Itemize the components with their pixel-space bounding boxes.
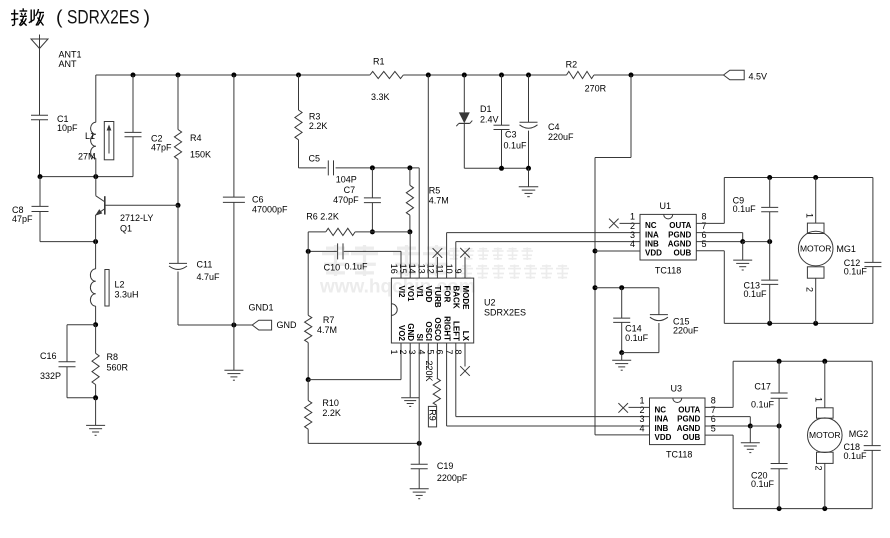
svg-text:U1: U1 xyxy=(660,201,672,211)
svg-text:14: 14 xyxy=(407,264,417,274)
svg-text:4.7uF: 4.7uF xyxy=(197,272,221,282)
zener diode D1 2.4V xyxy=(456,75,498,168)
resistor R5 4.7M xyxy=(406,168,449,235)
capacitor C18 0.1uF xyxy=(844,361,881,508)
antenna ANT1 xyxy=(31,35,82,116)
svg-text:ANT: ANT xyxy=(59,59,78,69)
U1 pin7 PGND wire xyxy=(696,233,742,242)
svg-text:0.1uF: 0.1uF xyxy=(733,204,757,214)
svg-text:C16: C16 xyxy=(40,351,57,361)
wire D1/C3/C4 bottom xyxy=(464,166,531,171)
svg-text:13: 13 xyxy=(416,264,426,274)
svg-text:220uF: 220uF xyxy=(673,325,699,335)
inductor L2 3.3uH xyxy=(90,242,138,328)
U1 pin names xyxy=(645,221,692,257)
capacitor C3 0.1uF xyxy=(494,75,528,168)
svg-text:R3: R3 xyxy=(309,111,321,121)
svg-text:16: 16 xyxy=(389,264,399,274)
svg-text:INB: INB xyxy=(645,239,659,248)
U3 pin7 PGND wire xyxy=(705,417,750,426)
svg-text:3.3uH: 3.3uH xyxy=(115,290,139,300)
svg-text:MG1: MG1 xyxy=(836,244,856,254)
svg-text:0.1uF: 0.1uF xyxy=(625,333,649,343)
svg-text:SDRX2ES: SDRX2ES xyxy=(67,7,140,29)
svg-text:560R: 560R xyxy=(107,363,129,373)
U2 pin13 VDD column xyxy=(427,75,429,278)
svg-text:2.2K: 2.2K xyxy=(322,408,341,418)
svg-text:AGND: AGND xyxy=(668,239,692,248)
svg-text:0.1uF: 0.1uF xyxy=(504,140,528,150)
resistor R9 220K xyxy=(424,361,440,427)
svg-text:VO1: VO1 xyxy=(406,286,415,303)
svg-text:1: 1 xyxy=(814,397,824,402)
U3 pin1 no-connect xyxy=(618,403,649,413)
svg-text:C10: C10 xyxy=(324,263,341,273)
capacitor C16 332P xyxy=(40,325,96,398)
svg-text:270R: 270R xyxy=(585,84,607,94)
capacitor C2 47pF xyxy=(125,75,173,177)
svg-text:C19: C19 xyxy=(437,461,454,471)
svg-text:10pF: 10pF xyxy=(57,123,78,133)
capacitor C15 220uF xyxy=(622,288,699,353)
svg-text:R4: R4 xyxy=(190,133,202,143)
svg-text:4: 4 xyxy=(630,239,635,249)
svg-text:2: 2 xyxy=(805,287,815,292)
svg-text:GND1: GND1 xyxy=(249,302,274,312)
svg-text:FOR: FOR xyxy=(442,286,451,303)
ground under C4 xyxy=(519,168,539,196)
svg-text:OSCI: OSCI xyxy=(424,321,433,341)
svg-text:10: 10 xyxy=(444,264,454,274)
svg-text:NC: NC xyxy=(655,405,667,414)
ground at U1 AGND xyxy=(733,242,752,270)
svg-text:220uF: 220uF xyxy=(548,132,574,142)
svg-text:C7: C7 xyxy=(344,185,356,195)
svg-text:C6: C6 xyxy=(252,195,264,205)
svg-text:R5: R5 xyxy=(429,186,441,196)
U1 pin8 wire to MG1 rail xyxy=(696,178,724,224)
wire VDD to U3 pin4 xyxy=(595,434,650,436)
svg-text:OUB: OUB xyxy=(674,249,692,258)
svg-text:VDD: VDD xyxy=(424,286,433,303)
svg-text:2.4V: 2.4V xyxy=(480,115,499,125)
capacitor C6 47000pF xyxy=(223,75,288,325)
svg-text:R2: R2 xyxy=(566,59,578,69)
capacitor C4 220uF xyxy=(520,75,575,168)
svg-text:2712-LY: 2712-LY xyxy=(120,213,153,223)
svg-text:OUTA: OUTA xyxy=(669,221,691,230)
svg-text:GND: GND xyxy=(406,323,415,341)
svg-text:470pF: 470pF xyxy=(333,195,359,205)
svg-text:0.1uF: 0.1uF xyxy=(751,479,775,489)
U3 pin8 wire to MG2 rail xyxy=(705,361,733,407)
U1 pin1 no-connect xyxy=(609,219,640,229)
U1 pin6 AGND wire xyxy=(696,239,772,244)
ground under C19 xyxy=(410,489,429,499)
resistor R1 3.3K xyxy=(370,57,403,102)
svg-text:4.7M: 4.7M xyxy=(317,325,337,335)
svg-text:4.5V: 4.5V xyxy=(749,71,768,81)
svg-text:OSCO: OSCO xyxy=(433,317,442,341)
svg-text:Q1: Q1 xyxy=(120,224,132,234)
svg-text:4: 4 xyxy=(639,423,644,433)
U2 pin16 stub xyxy=(400,251,402,278)
svg-text:TC118: TC118 xyxy=(666,450,692,460)
svg-text:2: 2 xyxy=(398,350,408,355)
ground under GND1 node xyxy=(224,325,243,380)
title text 接收（SDRX2ES） xyxy=(11,7,150,29)
svg-text:1: 1 xyxy=(389,350,399,355)
svg-text:0.1uF: 0.1uF xyxy=(345,261,369,271)
U2 pin2 GND stub xyxy=(409,343,411,397)
U2 pin7 LEFT wire to U3 INA xyxy=(456,343,650,417)
svg-text:OUTA: OUTA xyxy=(678,405,700,414)
svg-text:RIGHT: RIGHT xyxy=(442,316,451,341)
wire C1-L1-C2 bottom node y=176.6 xyxy=(38,174,134,179)
ground at U3 AGND xyxy=(741,426,760,453)
resistor R2 270R xyxy=(566,59,607,93)
svg-text:BACK: BACK xyxy=(452,286,461,309)
svg-text:TC118: TC118 xyxy=(655,265,681,275)
U2 pin6 RIGHT wire to U3 INB xyxy=(447,343,650,426)
U2 bottom pin numbers xyxy=(389,350,463,355)
capacitor C20 0.1uF xyxy=(751,426,788,509)
svg-text:9: 9 xyxy=(453,269,463,274)
IC U1 TC118 body xyxy=(640,201,696,275)
svg-text:VDD: VDD xyxy=(655,433,672,442)
svg-text:VO2: VO2 xyxy=(397,325,406,342)
U2 pin14 stub xyxy=(418,168,420,278)
wire R10 to C19 node xyxy=(308,441,422,446)
svg-text:NC: NC xyxy=(645,221,657,230)
svg-text:C5: C5 xyxy=(309,153,321,163)
svg-text:4.7M: 4.7M xyxy=(429,195,449,205)
resistor R8 560R xyxy=(92,325,129,401)
U2 pin11 FOR wire to U1 INA xyxy=(447,233,640,279)
U2 bottom pin names xyxy=(397,316,470,342)
svg-text:): ) xyxy=(144,7,151,29)
U2 pin3 SI wire to C19 xyxy=(418,343,420,443)
watermark xyxy=(319,245,569,298)
motor MG2 xyxy=(808,361,869,508)
svg-text:VDD: VDD xyxy=(645,249,662,258)
svg-text:GND: GND xyxy=(277,320,298,330)
svg-text:2: 2 xyxy=(814,466,824,471)
svg-text:LEFT: LEFT xyxy=(452,321,461,341)
svg-text:PGND: PGND xyxy=(677,415,700,424)
svg-text:TURB: TURB xyxy=(433,286,442,308)
wire MG2 bottom rail xyxy=(733,506,872,511)
svg-text:4: 4 xyxy=(416,350,426,355)
svg-text:220K: 220K xyxy=(424,361,434,382)
resistor R6 2.2K xyxy=(306,212,410,236)
svg-text:R8: R8 xyxy=(107,352,119,362)
svg-text:47pF: 47pF xyxy=(12,214,33,224)
svg-text:(: ( xyxy=(56,7,63,29)
U2 pin15 stub xyxy=(409,232,411,278)
U3 pin numbers right xyxy=(711,396,716,434)
svg-text:MG2: MG2 xyxy=(849,429,869,439)
connector GND1 xyxy=(249,302,298,330)
svg-text:SI: SI xyxy=(415,333,424,341)
svg-text:LX: LX xyxy=(461,331,470,342)
svg-text:1: 1 xyxy=(805,213,815,218)
svg-text:INB: INB xyxy=(655,424,669,433)
svg-text:104P: 104P xyxy=(336,175,357,185)
svg-text:27M: 27M xyxy=(78,152,96,162)
ground under C14 xyxy=(612,353,631,371)
svg-text:47000pF: 47000pF xyxy=(252,205,288,215)
wire VDD to U1 pin4 xyxy=(595,250,640,252)
wire R7 node to U2 pin1 xyxy=(308,343,401,380)
svg-text:AGND: AGND xyxy=(677,424,701,433)
svg-text:ANT1: ANT1 xyxy=(59,50,82,60)
U2 pin9 no-connect xyxy=(460,248,470,278)
svg-text:R7: R7 xyxy=(323,315,335,325)
U3 pin5 OUB wire to MG2 bottom rail xyxy=(705,435,733,509)
capacitor C5 104P xyxy=(299,153,420,184)
wire top supply bus y=75 xyxy=(96,74,724,76)
capacitor C7 470pF xyxy=(333,168,381,235)
capacitor C19 2200pF xyxy=(411,443,468,488)
wire C11 to GND1 node xyxy=(178,323,252,328)
svg-text:R10: R10 xyxy=(322,398,339,408)
resistor R10 2.2K xyxy=(305,380,341,444)
svg-text:7: 7 xyxy=(444,350,454,355)
svg-text:MOTOR: MOTOR xyxy=(800,244,831,254)
U2 top pin numbers xyxy=(389,264,463,274)
svg-text:150K: 150K xyxy=(190,150,211,160)
svg-text:15: 15 xyxy=(398,264,408,274)
svg-text:D1: D1 xyxy=(480,104,492,114)
svg-text:12: 12 xyxy=(425,264,435,274)
U3 pin names xyxy=(655,405,701,442)
svg-text:6: 6 xyxy=(435,350,445,355)
svg-text:R6 2.2K: R6 2.2K xyxy=(306,212,339,222)
transistor Q1 2712-LY xyxy=(95,177,178,242)
svg-text:0.1uF: 0.1uF xyxy=(844,266,868,276)
svg-text:5: 5 xyxy=(702,239,707,249)
svg-text:2.2K: 2.2K xyxy=(309,121,328,131)
svg-text:MOTOR: MOTOR xyxy=(809,430,840,440)
U3 pin6 AGND wire xyxy=(705,424,782,429)
svg-text:U3: U3 xyxy=(671,384,683,394)
wire MG2 top rail xyxy=(733,359,872,364)
resistor R7 4.7M xyxy=(305,232,337,382)
svg-text:VI1: VI1 xyxy=(415,286,424,299)
svg-text:C17: C17 xyxy=(754,381,771,391)
resistor R3 2.2K xyxy=(295,75,328,168)
U2 pin4 OSCI stub xyxy=(427,343,429,368)
wire to C14/C15 xyxy=(595,285,659,290)
svg-text:L2: L2 xyxy=(115,280,125,290)
capacitor C8 47pF xyxy=(12,177,49,242)
U2 pin10 BACK wire to U1 INB xyxy=(456,242,640,279)
svg-text:0.1uF: 0.1uF xyxy=(844,451,868,461)
wire C8 to emitter xyxy=(40,239,98,244)
svg-text:332P: 332P xyxy=(40,371,61,381)
U1 pin numbers right xyxy=(702,212,707,249)
svg-text:SDRX2ES: SDRX2ES xyxy=(484,308,526,318)
ground under U2 pin2 xyxy=(401,398,419,407)
inductor L1 27M with tuning slug xyxy=(78,75,114,177)
svg-text:5: 5 xyxy=(711,423,716,433)
wire MG1 bottom rail xyxy=(724,321,873,326)
svg-text:R9: R9 xyxy=(428,409,438,421)
capacitor C17 0.1uF xyxy=(751,361,788,426)
svg-text:C11: C11 xyxy=(197,260,213,270)
U2 top pin names xyxy=(397,286,470,311)
svg-text:3: 3 xyxy=(407,350,417,355)
ground under R8 xyxy=(86,398,105,436)
capacitor C9 0.1uF xyxy=(733,178,779,242)
wire supply to U1/U3 VDD xyxy=(593,75,632,435)
svg-text:3.3K: 3.3K xyxy=(371,92,390,102)
svg-text:47pF: 47pF xyxy=(151,143,172,153)
U1 pin5 OUB wire to MG1 bottom rail xyxy=(696,251,724,324)
capacitor C13 0.1uF xyxy=(744,242,779,324)
svg-text:0.1uF: 0.1uF xyxy=(751,400,775,410)
svg-text:C3: C3 xyxy=(505,130,517,140)
svg-text:8: 8 xyxy=(453,350,463,355)
resistor R4 150K xyxy=(174,75,211,208)
capacitor C14 0.1uF xyxy=(613,288,648,355)
capacitor C11 4.7uF xyxy=(169,205,220,325)
svg-text:L1: L1 xyxy=(85,131,95,141)
svg-text:PGND: PGND xyxy=(668,230,691,239)
capacitor C1 10pF xyxy=(31,114,78,177)
svg-text:INA: INA xyxy=(655,415,669,424)
svg-text:R1: R1 xyxy=(373,57,385,67)
U2 pin12 no-connect xyxy=(433,248,443,278)
svg-text:11: 11 xyxy=(435,264,445,273)
svg-text:0.1uF: 0.1uF xyxy=(744,289,768,299)
svg-text:MODE: MODE xyxy=(461,286,470,311)
svg-text:C4: C4 xyxy=(548,122,560,132)
capacitor C10 0.1uF xyxy=(306,243,401,278)
capacitor C12 0.1uF xyxy=(844,178,882,324)
svg-text:VI2: VI2 xyxy=(397,286,406,299)
svg-text:C14: C14 xyxy=(625,324,642,334)
U1 pin numbers left xyxy=(630,212,635,249)
svg-text:INA: INA xyxy=(645,230,659,239)
U3 pin numbers left xyxy=(639,396,644,434)
svg-text:2200pF: 2200pF xyxy=(437,473,468,483)
junction dots on top bus xyxy=(131,73,634,78)
svg-text:OUB: OUB xyxy=(683,433,701,442)
svg-text:U2: U2 xyxy=(484,297,496,307)
connector 4.5V xyxy=(724,70,768,81)
motor MG1 xyxy=(798,178,856,324)
wire MG1 top rail xyxy=(724,175,873,180)
op-amp U2 SDRX2ES body xyxy=(391,278,526,343)
IC U3 TC118 body xyxy=(650,384,706,460)
U2 pin8 LX no-connect xyxy=(460,343,470,376)
svg-text:5: 5 xyxy=(425,350,435,355)
U2 pin5 stub xyxy=(436,343,438,378)
